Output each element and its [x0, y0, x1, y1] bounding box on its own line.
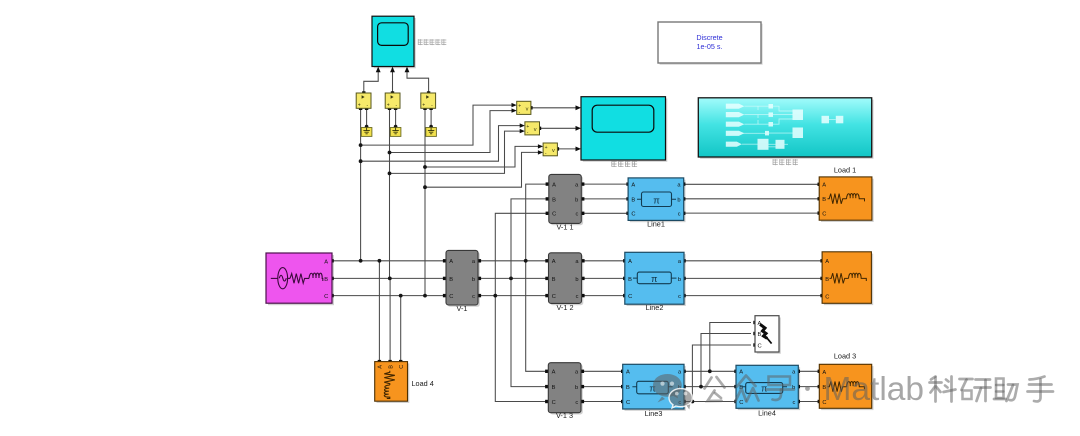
wire Line3 b to Line4 B [684, 386, 736, 388]
svg-text:B: B [388, 365, 394, 369]
svg-text:b: b [677, 197, 680, 203]
wire bus phase A source to V-1 [332, 260, 446, 262]
svg-text:C: C [552, 212, 556, 218]
svg-text:+: + [518, 103, 521, 109]
junction dots bus phase A [359, 259, 528, 263]
three-phase V-I measurement V-1 3 [548, 363, 583, 415]
port squares Line4 [734, 370, 800, 404]
ground G1 [361, 128, 372, 137]
watermark character 公 [705, 377, 725, 401]
svg-text:Line4: Line4 [758, 409, 776, 418]
svg-text:+: + [545, 145, 548, 151]
svg-text:Load 3: Load 3 [834, 352, 856, 361]
three-phase V-I measurement V-1 [446, 250, 480, 306]
wire ground stub 2 [395, 108, 397, 127]
svg-text:A: A [825, 259, 829, 265]
port squares upper VM blocks [359, 91, 433, 110]
scope Scope1 相对地电压 [372, 16, 416, 68]
ground G2 [390, 128, 401, 137]
port squares Line1 [626, 182, 685, 215]
svg-text:+: + [387, 103, 390, 109]
wire V-1 2 a to Line2 A [582, 260, 625, 262]
wire Line1 b to Load 1 B [684, 198, 820, 200]
svg-text:Load 1: Load 1 [834, 165, 856, 174]
port squares source outputs [330, 259, 333, 297]
wire V-1 2 c to Line2 C [582, 295, 625, 297]
wire Line1 c to Load 1 C [684, 212, 820, 214]
wire Line3 c to Line4 C [684, 401, 736, 403]
svg-text:C: C [399, 365, 405, 369]
wire staircase A to line-voltage VM1 plus [361, 105, 515, 145]
pi-section line block Line4 [736, 365, 800, 410]
svg-text:C: C [626, 400, 630, 406]
wire ground stub 3 [430, 108, 432, 127]
wire V-1 3 a to Line3 A [581, 370, 623, 372]
svg-text:C: C [449, 294, 453, 300]
junction dots bus phase B [388, 277, 513, 281]
port squares V-1 [443, 259, 481, 297]
wire ground stub 1 [366, 108, 368, 127]
series RLC load block Load 2 [822, 252, 873, 305]
svg-text:b: b [472, 277, 475, 283]
svg-text:B: B [449, 277, 453, 283]
svg-text:A: A [628, 259, 632, 265]
svg-text:V-1 1: V-1 1 [556, 223, 573, 232]
port squares Load 4 top [378, 360, 403, 363]
port squares Load 1 [818, 183, 821, 215]
arrowheads scope1 inputs [376, 67, 410, 73]
series RLC load block Load 3 [819, 364, 873, 410]
port squares V-1 2 [545, 259, 584, 297]
wire V-1 1 a to Line1 A [581, 183, 628, 185]
voltage measurement U2 (phase B) [385, 93, 400, 109]
arrowheads line-voltage VM inputs [512, 103, 544, 155]
svg-text:Line2: Line2 [646, 303, 664, 312]
pi-section line block Line2 [625, 252, 686, 306]
wire bus phase b V-1 to V-1 2 [478, 277, 549, 279]
wire Line2 c to Load 2 C [684, 295, 822, 297]
wire Load 4 phase C [400, 296, 402, 362]
wire staircase B to line-voltage VM2 minus [390, 131, 524, 173]
svg-text:C: C [324, 294, 328, 300]
scope Scope2 各线电压 [581, 97, 667, 162]
svg-text:b: b [575, 277, 578, 283]
line voltage measurement VM2 [525, 122, 540, 136]
svg-text:c: c [472, 294, 475, 300]
watermark character 科 [930, 377, 956, 402]
arrowheads scope2 inputs [576, 105, 582, 151]
svg-text:A: A [552, 183, 556, 189]
wire Line4 b to Load 3 B [798, 386, 819, 388]
svg-text:Matlab: Matlab [824, 371, 925, 408]
powergui block Discrete 1e-05 s [658, 22, 763, 65]
svg-text:+: + [422, 103, 425, 109]
port squares fault inputs [753, 321, 756, 347]
label 各线电压 [612, 161, 637, 167]
wire staircase C to line-voltage VM3 plus [425, 146, 541, 167]
port squares Line3 [621, 370, 686, 404]
svg-text:b: b [575, 385, 578, 391]
svg-text:B: B [822, 197, 826, 203]
line voltage measurement VM1 [517, 101, 531, 115]
svg-text:C: C [825, 294, 829, 300]
ground G3 [426, 128, 437, 137]
svg-text:A: A [626, 370, 630, 376]
svg-text:B: B [552, 385, 556, 391]
watermark character 助 [994, 379, 1018, 402]
svg-text:B: B [825, 277, 829, 283]
wire Load 4 phase B [389, 278, 391, 361]
svg-text:B: B [552, 277, 556, 283]
watermark character 手 [1028, 377, 1054, 402]
label 相对地电压 [418, 39, 446, 45]
wire VM1 output to scope2 [531, 107, 577, 109]
junction dots ground inputs [365, 125, 433, 129]
wire bus phase C source to V-1 [332, 295, 446, 297]
junction dots bus phase C [399, 294, 497, 298]
series RLC load block Load 1 [819, 177, 874, 222]
svg-text:v: v [526, 106, 529, 112]
svg-text:B: B [324, 277, 328, 283]
three-phase V-I measurement V-1 1 [549, 174, 583, 225]
svg-text:C: C [631, 212, 635, 218]
junction dots fault taps [691, 369, 712, 403]
svg-text:B: B [758, 332, 762, 338]
wire riser phase C to V-1 1 and V-1 3 [495, 213, 549, 401]
wire VM2 output to scope2 [540, 127, 578, 129]
watermark middle dot [805, 386, 810, 391]
svg-text:C: C [552, 400, 556, 406]
svg-text:A: A [739, 370, 743, 376]
wire fault phase B [701, 334, 751, 387]
svg-text:c: c [575, 212, 578, 218]
voltage measurement U1 (phase A) [356, 93, 371, 109]
wire Line1 a to Load 1 A [684, 183, 820, 185]
svg-text:C: C [739, 400, 743, 406]
wire riser phase A to V-1 1 and V-1 3 [526, 184, 549, 371]
svg-text:Line3: Line3 [645, 409, 663, 418]
svg-text:A: A [378, 365, 384, 369]
subsystem 波形观测 [698, 98, 873, 159]
wire V-1 2 b to Line2 B [582, 277, 625, 279]
wire scope1 input 3 [407, 68, 429, 93]
wire Line4 a to Load 3 A [798, 370, 819, 372]
port squares Line2 [623, 259, 686, 297]
svg-text:B: B [626, 385, 630, 391]
wire V-1 1 c to Line1 C [581, 212, 628, 214]
wire staircase C to line-voltage VM3 minus [425, 152, 541, 187]
svg-text:V-1: V-1 [457, 304, 468, 313]
svg-text:B: B [552, 197, 556, 203]
pi-section line block Line3 [623, 364, 686, 411]
svg-text:V-1 2: V-1 2 [556, 303, 573, 312]
wire V-1 1 b to Line1 B [581, 198, 628, 200]
svg-text:C: C [552, 294, 556, 300]
voltage measurement U3 (phase C) [421, 93, 436, 109]
svg-text:A: A [552, 259, 556, 265]
wire Line3 a to Line4 A [684, 370, 736, 372]
svg-text:C: C [822, 211, 826, 217]
svg-text:c: c [678, 212, 681, 218]
svg-text:A: A [822, 183, 826, 189]
svg-text:C: C [628, 294, 632, 300]
svg-text:V-1 3: V-1 3 [556, 411, 573, 420]
wire bus phase a V-1 to V-1 2 [478, 260, 549, 262]
three-phase source block [266, 253, 334, 305]
svg-text:b: b [678, 277, 681, 283]
series RLC load block Load 4 [375, 362, 410, 403]
svg-text:+: + [526, 124, 529, 130]
three-phase fault block [755, 316, 781, 354]
svg-text:1e-05 s.: 1e-05 s. [697, 42, 723, 51]
watermark character 众 [736, 376, 759, 402]
svg-text:A: A [631, 183, 635, 189]
wire Line2 b to Load 2 B [684, 277, 822, 279]
wire scope1 input 1 [364, 68, 378, 93]
svg-text:B: B [631, 197, 635, 203]
port squares V-1 1 [546, 182, 585, 215]
port squares Load 3 [818, 370, 821, 404]
svg-text:π: π [653, 195, 660, 206]
wire scope1 input 2 [392, 68, 394, 93]
port squares Load 2 [820, 259, 823, 297]
svg-text:A: A [449, 259, 453, 265]
svg-text:v: v [552, 148, 555, 154]
svg-text:Line1: Line1 [647, 220, 665, 229]
line voltage measurement VM3 [543, 143, 557, 157]
port squares V-1 3 [545, 370, 584, 404]
wire bus phase c V-1 to V-1 2 [478, 295, 549, 297]
svg-text:b: b [575, 197, 578, 203]
svg-text:c: c [575, 400, 578, 406]
svg-text:c: c [576, 294, 579, 300]
svg-text:C: C [758, 343, 762, 349]
wire Line2 a to Load 2 A [684, 260, 822, 262]
three-phase V-I measurement V-1 2 [549, 253, 584, 305]
wire riser phase B to V-1 1 and V-1 3 [511, 199, 549, 387]
port squares line-voltage VM outputs [529, 106, 559, 150]
wire Load 4 phase A [378, 261, 380, 362]
wire tap vertical phase C to voltage measurement 3 [424, 108, 426, 295]
svg-text:c: c [678, 294, 681, 300]
wire fault phase C [692, 345, 751, 402]
svg-text:Load 4: Load 4 [412, 379, 434, 388]
wire fault phase A [710, 323, 751, 372]
wire tap vertical phase B to voltage measurement 2 [389, 108, 391, 278]
svg-text:B: B [628, 277, 632, 283]
svg-text:π: π [651, 274, 657, 284]
wire staircase A to line-voltage VM2 plus [361, 126, 523, 162]
wire bus phase B source to V-1 [332, 277, 446, 279]
svg-text:A: A [324, 259, 328, 265]
wire VM3 output to scope2 [557, 148, 577, 150]
svg-text:+: + [358, 103, 361, 109]
wire V-1 3 b to Line3 B [581, 386, 623, 388]
wire tap vertical phase A to voltage measurement 1 [360, 108, 362, 260]
svg-text:A: A [552, 370, 556, 376]
svg-text:v: v [534, 127, 537, 133]
wire staircase B to line-voltage VM1 minus [390, 111, 516, 153]
watermark character 号 [766, 377, 794, 400]
label 波形观测 [773, 159, 798, 165]
wire Line4 c to Load 3 C [798, 401, 819, 403]
junction dots voltage tap verticals [359, 143, 427, 189]
wire V-1 3 c to Line3 C [581, 401, 623, 403]
watermark WeChat icon [653, 374, 692, 410]
svg-text:c: c [792, 400, 795, 406]
watermark character 研 [960, 379, 991, 401]
pi-section line block Line1 [628, 178, 685, 222]
